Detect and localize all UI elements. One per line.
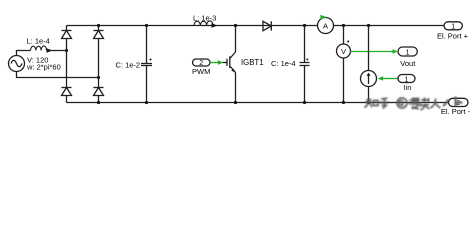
wire bottom rail — [67, 102, 449, 104]
svg-text:2: 2 — [456, 100, 460, 107]
wire collector down — [235, 26, 237, 53]
wire current source top lead — [368, 26, 370, 71]
node IGBT collector on top rail — [234, 24, 237, 27]
wire bridge left leg lower stub — [66, 96, 68, 103]
wire L1 to bridge left leg — [47, 50, 67, 52]
current direction arrow of L1 — [47, 48, 53, 52]
wire bridge right leg middle — [98, 39, 100, 88]
svg-text:C: 1e-2: C: 1e-2 — [116, 61, 141, 70]
node C2 bottom — [303, 101, 306, 104]
svg-text:w: 2*pi*60: w: 2*pi*60 — [26, 63, 61, 72]
capacitor C2 top lead — [304, 26, 306, 63]
svg-text:1: 1 — [406, 49, 410, 56]
capacitor C1 bottom lead — [146, 66, 148, 103]
wire current source bottom lead — [368, 87, 370, 103]
polarity mark of C1 — [149, 58, 152, 61]
outport 1 Vout — [398, 47, 417, 56]
capacitor C1 top lead — [146, 26, 148, 64]
wire top rail — [67, 25, 445, 27]
polarity mark of C2 — [306, 58, 309, 61]
capacitor C1 (C: 1e-2) — [141, 64, 152, 66]
node IGBT emitter on bottom rail — [234, 101, 237, 104]
capacitor C2 bottom lead — [304, 66, 306, 103]
ammeter A1 — [318, 18, 334, 34]
diode D3 (bridge bottom-left) — [62, 88, 72, 96]
current direction arrow of A1 — [320, 15, 327, 20]
node current source top — [367, 24, 370, 27]
signal wire V1 to Vout — [351, 49, 398, 54]
wire bridge left leg upper stub — [66, 26, 68, 31]
svg-text:L: 1e-4: L: 1e-4 — [27, 37, 50, 46]
wire source bottom to bridge right leg — [17, 72, 99, 78]
signal wire PWM to gate — [210, 60, 223, 65]
svg-text:C: 1e-4: C: 1e-4 — [271, 59, 296, 68]
voltmeter V1 — [337, 44, 351, 58]
electrical port 1 El. Port + — [444, 22, 462, 31]
transistor IGBT1 — [223, 52, 236, 73]
inport 2 PWM — [193, 59, 211, 67]
node C1 top — [145, 24, 148, 27]
svg-text:PWM: PWM — [192, 67, 210, 76]
wire bridge right leg upper stub — [98, 26, 100, 31]
node bridge right leg top — [97, 24, 100, 27]
diode D1 (bridge top-left) — [62, 31, 72, 39]
wire source top to inductor L1 — [17, 51, 31, 56]
inductor L1 — [31, 46, 47, 51]
node voltmeter tap — [342, 24, 345, 27]
svg-text:Vout: Vout — [400, 59, 416, 68]
svg-text:V: V — [341, 47, 346, 56]
wire bridge left leg middle — [66, 39, 68, 88]
svg-text:Iin: Iin — [404, 83, 412, 92]
node bridge AC left — [65, 49, 68, 52]
wire voltmeter bottom lead — [343, 58, 345, 103]
svg-text:El. Port +: El. Port + — [437, 31, 469, 40]
diode D4 (bridge bottom-right) — [94, 88, 104, 96]
node current source bottom — [367, 101, 370, 104]
electrical port 2 El. Port - — [449, 98, 469, 107]
wire bridge right leg lower stub — [98, 96, 100, 103]
controlled current source I_load — [361, 71, 377, 87]
svg-text:L: 1e-3: L: 1e-3 — [193, 14, 216, 23]
svg-text:El. Port -: El. Port - — [441, 107, 471, 116]
node C1 bottom — [145, 101, 148, 104]
svg-text:A: A — [323, 21, 328, 30]
inductor L2 (L: 1e-3) — [194, 21, 213, 26]
svg-text:1: 1 — [451, 24, 455, 31]
svg-text:IGBT1: IGBT1 — [241, 58, 264, 67]
diode D5 (boost diode) — [263, 21, 271, 30]
diode D2 (bridge top-right) — [94, 31, 104, 39]
polarity mark of V1 — [347, 41, 349, 43]
ac voltage source V_ac — [9, 56, 25, 72]
node voltmeter bottom — [342, 101, 345, 104]
wire voltmeter top lead — [343, 26, 345, 45]
signal wire Iin to current source — [378, 76, 398, 81]
node C2 top — [303, 24, 306, 27]
capacitor C2 (C: 1e-4) — [300, 63, 310, 66]
inport 1 Iin — [398, 75, 415, 84]
watermark zhihu — [365, 97, 463, 111]
wire emitter down — [235, 73, 237, 103]
node bridge right leg bottom — [97, 101, 100, 104]
node bridge AC right — [97, 76, 100, 79]
current direction arrow of L2 — [212, 23, 218, 27]
